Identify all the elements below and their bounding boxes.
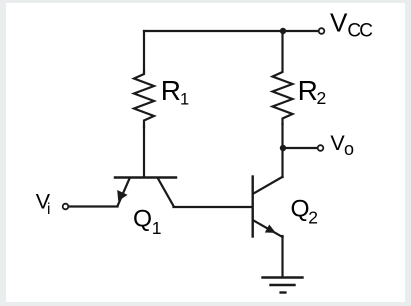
resistor R1 <box>134 72 154 127</box>
wire Q2 emitter to ground <box>281 236 283 277</box>
node junction dot Vo <box>280 145 286 151</box>
node junction dot VCC <box>280 28 286 34</box>
wire left vertical R1 top <box>143 31 145 72</box>
svg-text:Q: Q <box>133 205 152 232</box>
svg-text:2: 2 <box>317 88 327 108</box>
svg-text:R: R <box>161 75 181 106</box>
label R1 <box>161 75 189 109</box>
node terminal VCC <box>319 28 325 34</box>
svg-text:o: o <box>344 139 354 159</box>
wire input Vi to Q1 emitter <box>69 205 118 207</box>
wire top rail VCC <box>144 30 318 32</box>
label Vi <box>36 190 51 218</box>
transistor Q2 <box>253 177 283 238</box>
wire Vo node to terminal <box>283 147 317 149</box>
wire Q1 collector to Q2 base <box>174 206 253 208</box>
label R2 <box>298 75 327 108</box>
svg-text:i: i <box>47 201 50 218</box>
label VCC <box>330 8 372 42</box>
svg-text:2: 2 <box>308 208 318 228</box>
resistor R2 <box>273 31 293 124</box>
transistor Q1 <box>115 178 176 207</box>
svg-text:Q: Q <box>291 195 310 222</box>
svg-text:1: 1 <box>180 90 189 108</box>
label Q2 <box>291 195 319 227</box>
svg-text:CC: CC <box>347 20 372 41</box>
wire Q2 collector up to Vo node <box>281 148 283 177</box>
node terminal Vo <box>318 145 324 151</box>
label Q1 <box>133 205 162 238</box>
svg-text:R: R <box>298 75 318 106</box>
svg-text:1: 1 <box>152 218 162 238</box>
svg-text:V: V <box>330 8 348 38</box>
node input terminal Vi <box>63 204 69 210</box>
label Vo <box>330 131 354 159</box>
wire R2 bottom segment through Vo node <box>281 124 283 148</box>
wire R1 bottom to Q1 base <box>143 126 145 177</box>
ground <box>263 278 303 293</box>
